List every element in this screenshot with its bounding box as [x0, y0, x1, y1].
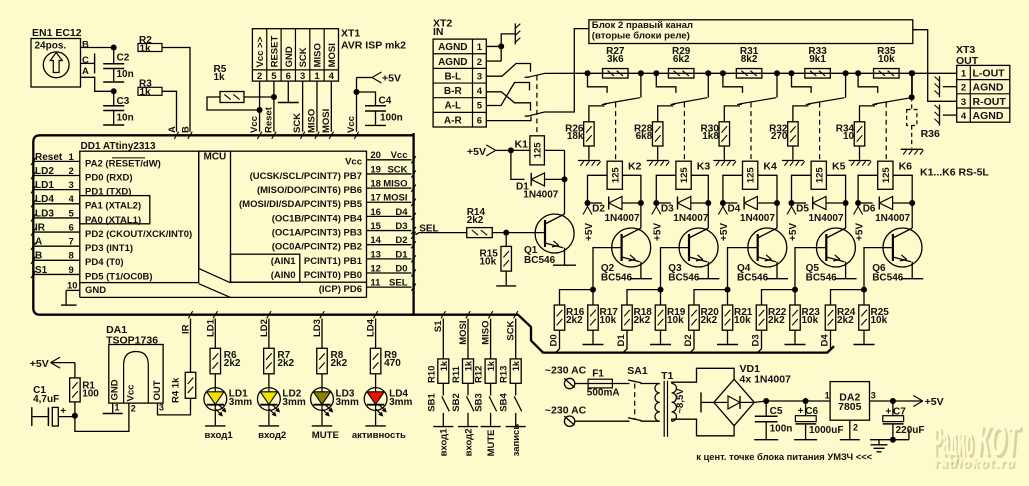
svg-text:1000uF: 1000uF	[809, 425, 843, 436]
svg-text:EN1 EC12: EN1 EC12	[32, 27, 82, 39]
node base divider Q2	[590, 287, 596, 293]
svg-text:B: B	[35, 251, 42, 262]
svg-text:OUT: OUT	[152, 380, 163, 400]
connector XT1 AVR ISP mk2	[252, 29, 338, 81]
svg-text:1: 1	[314, 71, 320, 82]
wire chain to K3 blade	[707, 73, 709, 97]
svg-text:BC546: BC546	[668, 272, 700, 283]
svg-text:1N4007: 1N4007	[809, 213, 844, 224]
wire R5 right to Reset line	[244, 96, 274, 98]
relay contact K3 blade	[673, 98, 708, 104]
relay contact K1.1 blade	[525, 76, 530, 78]
svg-text:3: 3	[961, 97, 966, 108]
svg-text:RESET: RESET	[270, 36, 281, 68]
svg-text:+5V: +5V	[467, 146, 486, 158]
wire XT1 pin2 Vcc down to MCU	[259, 81, 261, 132]
svg-text:100n: 100n	[770, 424, 793, 435]
relay coil K6	[878, 161, 893, 189]
wire DA2 out to +5V	[870, 400, 911, 402]
ground bar under DA2	[840, 439, 860, 441]
analog ground under R36	[901, 148, 923, 150]
node chain R35 left	[855, 70, 861, 76]
node D2 cathode junction	[638, 200, 644, 206]
wire K6 to Q6 collector	[911, 203, 913, 228]
svg-text:SB4: SB4	[499, 393, 510, 412]
svg-text:100n: 100n	[380, 113, 403, 124]
svg-text:R36: R36	[921, 128, 940, 140]
svg-text:1k: 1k	[511, 360, 521, 371]
svg-text:PD2 (CKOUT/XCK/INT0): PD2 (CKOUT/XCK/INT0)	[85, 229, 192, 240]
svg-text:BC546: BC546	[806, 272, 838, 283]
svg-text:MOSI: MOSI	[458, 321, 469, 345]
svg-text:10: 10	[67, 281, 78, 292]
svg-text:PCINT1) PB1: PCINT1) PB1	[304, 256, 363, 267]
node D5 cathode junction	[843, 200, 849, 206]
svg-text:(MOSI/DI/SDA/PCINT5) PB5: (MOSI/DI/SDA/PCINT5) PB5	[239, 199, 363, 210]
relay contact K1.2 blade	[525, 115, 530, 117]
svg-text:125: 125	[533, 142, 544, 159]
wire MCU LD2 down	[268, 319, 270, 349]
svg-text:1N4007: 1N4007	[673, 213, 708, 224]
DD1 pin 18 (MISO/DO/PCINT6) PB6 net MISO	[367, 187, 412, 189]
svg-text:PCINT0) PB0: PCINT0) PB0	[304, 270, 362, 281]
svg-text:GND: GND	[85, 285, 106, 296]
svg-text:K3: K3	[697, 160, 711, 172]
ground at DA1 pin1	[103, 413, 123, 415]
analog ground under R26	[578, 160, 600, 162]
svg-text:B-R: B-R	[444, 86, 463, 97]
svg-text:8: 8	[69, 251, 74, 262]
button SB1	[442, 396, 450, 411]
wire XT1 pin4 MOSI down to MCU	[330, 81, 332, 132]
svg-text:125: 125	[881, 167, 892, 184]
svg-text:D5: D5	[796, 204, 809, 215]
svg-text:(AIN0: (AIN0	[271, 270, 296, 281]
svg-text:вход2: вход2	[463, 429, 474, 457]
svg-text:10k: 10k	[734, 315, 751, 326]
svg-text:14: 14	[370, 235, 381, 246]
wire Q1 emitter to ground	[564, 248, 566, 265]
wire SB1 to ground	[442, 413, 444, 426]
ground under SB1	[433, 426, 453, 428]
svg-text:+5V: +5V	[854, 223, 865, 241]
MCU module thick border	[33, 135, 834, 352]
ground bar under C6	[794, 439, 817, 441]
svg-text:10: 10	[843, 131, 855, 142]
node D4 anode junction	[720, 200, 726, 206]
wire MCU MOSI down to R11	[467, 319, 469, 359]
DD1 pin 3 PD1 (TXD) net LD1	[35, 189, 80, 191]
wire coil K4 left	[723, 175, 743, 203]
svg-text:D3: D3	[395, 221, 407, 232]
wire coil K3 right	[691, 175, 708, 203]
wire bridge + output rail	[754, 401, 766, 402]
svg-text:Vcc: Vcc	[345, 157, 362, 168]
wire B-R pin4 to K1 lower switch	[486, 92, 530, 111]
wire Q5 emitter to ground	[845, 262, 847, 278]
svg-text:PD4 (T0): PD4 (T0)	[85, 257, 124, 268]
svg-text:+5V: +5V	[788, 223, 799, 241]
ground at Q6 emitter	[901, 278, 923, 280]
transistor Q1 BC546	[535, 214, 574, 253]
wire K4 contact to shunt R30	[724, 106, 740, 122]
diode D6 1N4007	[858, 202, 873, 204]
svg-text:SCK: SCK	[506, 320, 517, 340]
svg-text:Vcc: Vcc	[249, 116, 260, 133]
diode D5 1N4007	[792, 202, 807, 204]
relay contact K2 blade	[604, 98, 640, 104]
svg-text:4: 4	[69, 194, 75, 205]
svg-text:+5V: +5V	[584, 223, 595, 241]
node C1-R1 junction	[72, 413, 78, 419]
attenuator chain wire	[588, 72, 957, 74]
svg-text:D4: D4	[395, 207, 408, 218]
svg-text:(AIN1: (AIN1	[271, 256, 297, 267]
resistor R13 1k	[510, 359, 521, 383]
wire coil K6 left	[858, 175, 878, 203]
svg-text:3: 3	[159, 403, 164, 413]
+5V supply arrow for K3	[655, 203, 657, 207]
wire Q3 base	[661, 248, 690, 290]
wire MCU MISO down to R12	[490, 319, 492, 359]
svg-text:3mm: 3mm	[282, 397, 305, 408]
svg-text:18k: 18k	[567, 131, 584, 142]
svg-text:~8,5V: ~8,5V	[675, 388, 686, 414]
svg-text:2: 2	[477, 57, 482, 68]
ground under R23	[785, 344, 806, 346]
svg-text:B: B	[180, 126, 191, 133]
svg-text:15: 15	[370, 221, 381, 232]
analog ground at XT3 pin4	[939, 105, 941, 126]
svg-text:7805: 7805	[838, 401, 862, 413]
node chain R27 right	[638, 70, 644, 76]
svg-text:PD5 (T1/OC0B): PD5 (T1/OC0B)	[85, 271, 153, 282]
node D6 anode junction	[855, 200, 861, 206]
wire DA1 GND to ground	[112, 403, 114, 413]
ground under C4	[365, 124, 386, 126]
svg-text:2: 2	[131, 404, 136, 414]
svg-text:LD3: LD3	[35, 208, 54, 219]
wire chain to K4 blade	[776, 73, 778, 97]
wire SEL from MCU to R14	[411, 232, 415, 239]
svg-text:3k6: 3k6	[607, 54, 624, 65]
svg-text:PD0 (RXD): PD0 (RXD)	[85, 172, 133, 183]
wire SA1 to T1	[641, 383, 660, 385]
node chain R31 right	[774, 70, 780, 76]
svg-text:3: 3	[69, 180, 74, 191]
svg-text:MOSI: MOSI	[321, 109, 332, 133]
wire R16 to bus D0	[556, 330, 560, 352]
svg-text:radiokot.ru: radiokot.ru	[934, 456, 1014, 470]
node chain R29 left	[653, 70, 659, 76]
diode D2 1N4007	[588, 202, 603, 204]
DD1 pin 17 (MOSI/DI/SDA/PCINT5) PB5 net MOSI	[367, 201, 412, 203]
wire chain to K5 blade	[845, 73, 847, 97]
ground under C2	[103, 81, 124, 83]
+5V supply arrow for K5	[791, 203, 793, 207]
analog ground under R32	[782, 160, 804, 162]
svg-text:2k2: 2k2	[224, 358, 241, 369]
svg-text:DD1 ATtiny2313: DD1 ATtiny2313	[81, 141, 156, 152]
wire chain to K6 blade	[911, 73, 913, 97]
node A junction	[111, 88, 117, 94]
svg-text:D0: D0	[395, 263, 407, 274]
ground under XT1 pin6	[278, 102, 299, 104]
svg-text:2k2: 2k2	[331, 358, 348, 369]
node D4 cathode junction	[774, 200, 780, 206]
svg-text:LD4: LD4	[35, 194, 54, 205]
wire XT3 pin4 AGND	[943, 114, 957, 116]
svg-text:K1: K1	[515, 139, 529, 151]
relay contact K4 blade	[739, 98, 776, 104]
DD1 pin 19 (UCSK/SCL/PCINT7) PB7 net SCK	[367, 173, 412, 175]
svg-text:MISO: MISO	[306, 109, 317, 133]
svg-text:D6: D6	[863, 204, 876, 215]
svg-text:Vcc: Vcc	[391, 150, 408, 161]
svg-text:4: 4	[477, 86, 483, 97]
ground at Q4 emitter	[766, 278, 788, 280]
svg-text:SCK: SCK	[298, 47, 309, 67]
wire XT1 pin5 Reset down to MCU	[273, 81, 275, 132]
resistor R4 1k	[185, 372, 196, 398]
svg-text:2k2: 2k2	[566, 315, 583, 326]
svg-text:1N4007: 1N4007	[740, 213, 775, 224]
ground under C3	[103, 124, 124, 126]
node Vcc-C4 junction	[354, 89, 360, 95]
ground under SB4	[506, 426, 526, 428]
svg-text:5: 5	[271, 71, 277, 82]
svg-text:+5V: +5V	[653, 223, 664, 241]
LED LD2 3mm	[258, 388, 281, 411]
wire K3 to Q3 collector	[707, 203, 709, 228]
svg-text:+5V: +5V	[925, 396, 944, 408]
DD1 pin 8 PD4 (T0) net B	[35, 259, 80, 261]
resistor R17 10k	[592, 290, 594, 305]
svg-text:6k2: 6k2	[673, 54, 690, 65]
diode D3 1N4007	[656, 202, 671, 204]
svg-text:A: A	[82, 66, 89, 77]
resistor R12 1k	[485, 359, 496, 383]
svg-text:B: B	[82, 39, 89, 50]
svg-text:1k: 1k	[486, 360, 496, 371]
ground at Q3 emitter	[697, 278, 719, 280]
svg-text:3mm: 3mm	[229, 397, 252, 408]
svg-text:2: 2	[853, 423, 858, 433]
wire K5 to Q5 collector	[845, 203, 847, 228]
svg-text:2k2: 2k2	[701, 315, 718, 326]
relay contact K5 blade	[808, 98, 845, 104]
svg-text:2: 2	[257, 71, 262, 82]
resistor R24 2k2	[831, 290, 865, 305]
svg-text:3: 3	[871, 391, 876, 401]
svg-text:GND: GND	[110, 379, 121, 400]
wire LD1 to ground	[214, 410, 216, 425]
wire MCU LD1 down	[214, 319, 216, 349]
svg-text:F1: F1	[592, 369, 604, 380]
svg-text:MUTE: MUTE	[312, 430, 340, 441]
svg-text:BC546: BC546	[737, 272, 769, 283]
ground under SB2	[458, 426, 478, 428]
DD1 pin 13 PCINT1) PB1 net D1	[367, 258, 412, 260]
ground under R25	[854, 344, 875, 346]
wire A-R pin6 to K1 lower switch	[486, 116, 531, 120]
node D5 anode junction	[789, 200, 795, 206]
resistor R23 10k	[794, 290, 796, 305]
svg-text:1k: 1k	[140, 87, 152, 98]
wire coil K3 left	[656, 175, 676, 203]
svg-text:D1: D1	[395, 249, 408, 260]
mechanical link K5 dashed	[819, 103, 821, 162]
transistor Q5 BC546	[816, 228, 855, 267]
node B junction	[111, 45, 117, 51]
relay contact K6 blade	[874, 98, 911, 104]
svg-text:вход1: вход1	[205, 430, 234, 441]
svg-text:10k: 10k	[871, 315, 888, 326]
diode D4 1N4007	[723, 202, 738, 204]
svg-text:LD2: LD2	[259, 319, 270, 337]
svg-text:LD1: LD1	[35, 180, 54, 191]
+5V output arrow	[911, 400, 923, 402]
wire chain to K3 upper contact	[656, 73, 676, 93]
svg-text:Блок 2 правый канал: Блок 2 правый канал	[592, 20, 693, 31]
svg-text:Reset: Reset	[35, 152, 63, 163]
resistor R7 2k2	[264, 348, 275, 374]
resistor R8 2k2	[317, 348, 328, 374]
ground bar under C5	[754, 439, 778, 441]
wire K2 to Q2 collector	[640, 203, 642, 228]
svg-text:18: 18	[370, 179, 381, 190]
ground under R19	[650, 344, 671, 346]
svg-text:13: 13	[370, 249, 381, 260]
wire R20 to bus D2	[690, 330, 694, 352]
wire chain to K5 upper contact	[792, 73, 812, 93]
svg-text:1k: 1k	[464, 360, 474, 371]
button SB4	[514, 396, 522, 411]
svg-text:AGND: AGND	[438, 57, 467, 68]
wire Q4 base	[728, 248, 758, 290]
svg-text:MISO: MISO	[313, 43, 324, 67]
svg-text:1k: 1k	[214, 72, 226, 83]
svg-text:SCK: SCK	[387, 164, 407, 175]
resistor R9 470	[370, 348, 381, 374]
svg-text:5: 5	[477, 101, 483, 112]
ground rail	[870, 439, 909, 441]
capacitor C2	[113, 48, 115, 64]
svg-text:MISO: MISO	[383, 179, 407, 190]
svg-text:S1: S1	[35, 265, 48, 276]
svg-text:активность: активность	[352, 430, 406, 441]
svg-text:4: 4	[329, 71, 335, 82]
node ground rail junction	[890, 437, 896, 443]
XT1 GND pin6 to ground	[287, 81, 289, 102]
resistor R20 2k2	[694, 290, 728, 305]
+5V supply arrow near C4	[357, 77, 373, 79]
wire K6 contact to shunt R34	[860, 106, 876, 122]
wire Q2 emitter to ground	[640, 262, 642, 278]
svg-text:C2: C2	[117, 53, 130, 64]
DD1 pin 9 PD5 (T1/OC0B) net S1	[35, 273, 80, 275]
svg-text:Vcc: Vcc	[346, 116, 357, 133]
svg-text:4,7uF: 4,7uF	[33, 394, 59, 405]
node C6 junction	[803, 398, 809, 404]
svg-text:7: 7	[69, 237, 74, 248]
svg-text:+5V: +5V	[30, 358, 49, 370]
button SB2	[467, 396, 475, 411]
wire Q4 emitter to ground	[776, 262, 778, 278]
svg-text:24pos.: 24pos.	[35, 41, 67, 52]
svg-text:2k2: 2k2	[768, 315, 785, 326]
svg-text:(OC1B/PCINT4) PB4: (OC1B/PCINT4) PB4	[272, 213, 363, 224]
svg-text:MCU: MCU	[204, 152, 227, 163]
resistor R6 2k2	[210, 348, 221, 374]
XTAL sub-box	[80, 196, 150, 224]
resistor R25 10k	[863, 290, 865, 305]
resistor R1 100	[74, 363, 76, 378]
svg-text:D1: D1	[616, 334, 627, 347]
svg-text:A-L: A-L	[444, 101, 461, 112]
svg-text:2k2: 2k2	[277, 358, 294, 369]
mechanical link K4 dashed	[750, 103, 752, 162]
ground under R17	[583, 344, 604, 346]
wire R24 to bus D4	[827, 330, 831, 352]
wire XT1 pin3 SCK down to MCU	[302, 81, 304, 132]
ground at Q2 emitter	[630, 278, 652, 280]
node chain R35 right	[909, 70, 915, 76]
svg-text:16: 16	[370, 207, 381, 218]
analog ground under R28	[647, 160, 669, 162]
node chain R33 left	[789, 70, 795, 76]
svg-text:100: 100	[82, 388, 99, 399]
svg-text:D2: D2	[395, 235, 407, 246]
svg-text:запись: запись	[511, 424, 522, 457]
svg-text:10n: 10n	[117, 113, 134, 124]
svg-text:LD3: LD3	[312, 319, 323, 337]
svg-text:4x 1N4007: 4x 1N4007	[740, 374, 792, 386]
svg-text:PD3 (INT1): PD3 (INT1)	[85, 243, 133, 254]
ground under LD4	[365, 425, 386, 427]
wire Q5 base	[795, 248, 826, 290]
transistor Q6 BC546	[883, 228, 922, 267]
svg-text:~230 AC: ~230 AC	[545, 405, 587, 417]
wire XT3 pin2 AGND	[943, 86, 957, 88]
terminal upper 230AC	[564, 378, 574, 388]
analog ground symbol at XT2	[514, 23, 516, 44]
wire chain to K4 upper contact	[723, 73, 743, 93]
svg-text:BC546: BC546	[601, 272, 633, 283]
svg-text:вход1: вход1	[439, 428, 450, 457]
svg-text:LD1: LD1	[205, 318, 216, 337]
+5V supply arrow for K4	[722, 203, 724, 207]
svg-text:+5V: +5V	[719, 223, 730, 241]
svg-text:125: 125	[746, 167, 757, 184]
svg-text:1N4007: 1N4007	[605, 213, 640, 224]
IC DA2 7805	[830, 382, 869, 421]
svg-text:AVR ISP mk2: AVR ISP mk2	[341, 40, 406, 52]
svg-text:4: 4	[961, 111, 967, 122]
svg-text:3mm: 3mm	[389, 397, 412, 408]
svg-text:10k: 10k	[667, 315, 684, 326]
svg-text:K4: K4	[763, 160, 777, 172]
+5V supply arrow for K2	[587, 203, 589, 207]
svg-text:C: C	[82, 55, 89, 66]
svg-text:GND: GND	[284, 46, 295, 67]
svg-text:1: 1	[69, 152, 75, 163]
ground at Q1 emitter	[553, 264, 576, 266]
svg-text:K2: K2	[628, 160, 642, 172]
wire coil K2 left	[588, 175, 608, 203]
svg-text:BC546: BC546	[524, 255, 556, 266]
wire XT2 pins 1-2 AGND	[486, 34, 515, 47]
